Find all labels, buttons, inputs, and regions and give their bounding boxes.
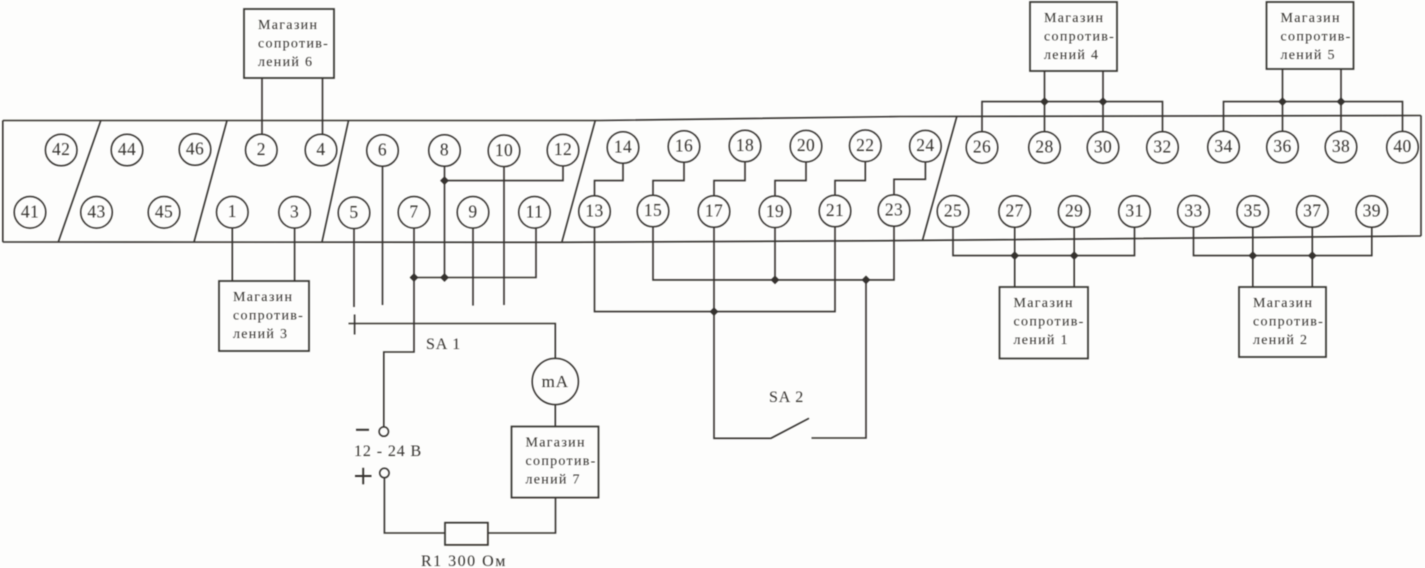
svg-text:10: 10 bbox=[495, 140, 513, 160]
svg-text:11: 11 bbox=[526, 201, 544, 221]
svg-text:лений 5: лений 5 bbox=[1281, 48, 1336, 63]
svg-text:2: 2 bbox=[257, 139, 266, 159]
svg-text:6: 6 bbox=[378, 140, 387, 160]
svg-text:Магазин: Магазин bbox=[1253, 296, 1313, 311]
svg-text:19: 19 bbox=[766, 201, 784, 221]
svg-text:23: 23 bbox=[885, 200, 903, 220]
svg-text:22: 22 bbox=[856, 135, 874, 155]
svg-text:3: 3 bbox=[290, 201, 299, 221]
svg-text:8: 8 bbox=[440, 140, 449, 160]
svg-text:45: 45 bbox=[155, 201, 173, 221]
svg-text:36: 36 bbox=[1273, 136, 1291, 156]
svg-text:26: 26 bbox=[973, 136, 991, 156]
svg-text:31: 31 bbox=[1125, 201, 1143, 221]
svg-text:лений 1: лений 1 bbox=[1014, 333, 1069, 348]
svg-text:15: 15 bbox=[644, 200, 662, 220]
svg-text:1: 1 bbox=[228, 201, 237, 221]
svg-text:46: 46 bbox=[186, 139, 204, 159]
svg-text:33: 33 bbox=[1184, 200, 1202, 220]
svg-text:27: 27 bbox=[1006, 201, 1024, 221]
svg-text:39: 39 bbox=[1363, 201, 1381, 221]
svg-text:лений 3: лений 3 bbox=[233, 327, 288, 342]
svg-text:SA 1: SA 1 bbox=[426, 336, 461, 353]
svg-text:лений 4: лений 4 bbox=[1044, 48, 1099, 63]
svg-text:34: 34 bbox=[1214, 136, 1232, 156]
svg-text:40: 40 bbox=[1393, 136, 1411, 156]
svg-text:лений 2: лений 2 bbox=[1253, 333, 1308, 348]
svg-text:16: 16 bbox=[675, 136, 693, 156]
svg-text:SA 2: SA 2 bbox=[769, 389, 804, 406]
svg-text:20: 20 bbox=[797, 135, 815, 155]
svg-text:R1 300 Ом: R1 300 Ом bbox=[421, 553, 507, 568]
svg-text:сопротив-: сопротив- bbox=[233, 309, 304, 324]
svg-text:сопротив-: сопротив- bbox=[526, 454, 597, 469]
svg-text:4: 4 bbox=[316, 139, 325, 159]
svg-text:сопротив-: сопротив- bbox=[1253, 315, 1324, 330]
svg-text:Магазин: Магазин bbox=[258, 18, 318, 33]
svg-text:43: 43 bbox=[87, 201, 105, 221]
svg-text:38: 38 bbox=[1332, 136, 1350, 156]
svg-text:44: 44 bbox=[118, 139, 136, 159]
svg-text:Магазин: Магазин bbox=[233, 290, 293, 305]
svg-text:12: 12 bbox=[554, 139, 572, 159]
svg-text:лений 7: лений 7 bbox=[526, 473, 581, 488]
svg-text:42: 42 bbox=[52, 139, 70, 159]
svg-text:Магазин: Магазин bbox=[526, 436, 586, 451]
svg-text:сопротив-: сопротив- bbox=[258, 37, 329, 52]
svg-text:сопротив-: сопротив- bbox=[1281, 30, 1352, 45]
svg-text:Магазин: Магазин bbox=[1044, 11, 1104, 26]
svg-text:25: 25 bbox=[944, 200, 962, 220]
svg-text:лений 6: лений 6 bbox=[258, 55, 313, 70]
svg-text:12 - 24 В: 12 - 24 В bbox=[354, 443, 422, 460]
svg-text:29: 29 bbox=[1065, 201, 1083, 221]
svg-text:7: 7 bbox=[409, 201, 418, 221]
svg-text:21: 21 bbox=[826, 200, 844, 220]
svg-text:41: 41 bbox=[21, 201, 39, 221]
svg-text:13: 13 bbox=[585, 201, 603, 221]
svg-text:14: 14 bbox=[614, 137, 632, 157]
svg-text:mA: mA bbox=[542, 372, 569, 391]
svg-text:9: 9 bbox=[468, 201, 477, 221]
svg-text:сопротив-: сопротив- bbox=[1014, 315, 1085, 330]
svg-text:28: 28 bbox=[1035, 136, 1053, 156]
svg-text:35: 35 bbox=[1244, 201, 1262, 221]
svg-text:5: 5 bbox=[349, 202, 358, 222]
svg-text:Магазин: Магазин bbox=[1014, 296, 1074, 311]
svg-text:37: 37 bbox=[1303, 201, 1321, 221]
svg-text:18: 18 bbox=[736, 135, 754, 155]
svg-text:сопротив-: сопротив- bbox=[1044, 30, 1115, 45]
svg-text:32: 32 bbox=[1153, 136, 1171, 156]
svg-text:30: 30 bbox=[1094, 136, 1112, 156]
svg-text:24: 24 bbox=[916, 135, 934, 155]
svg-text:17: 17 bbox=[705, 201, 723, 221]
svg-text:Магазин: Магазин bbox=[1281, 11, 1341, 26]
